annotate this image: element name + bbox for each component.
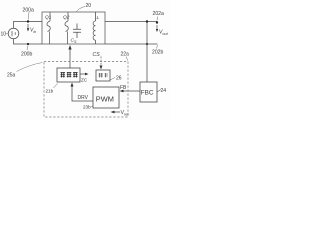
svg-text:Q1: Q1 — [45, 15, 52, 21]
FBC block — [140, 82, 157, 102]
svg-text:21b: 21b — [46, 89, 54, 94]
label 202a leader — [156, 17, 159, 21]
svg-text:23b: 23b — [83, 105, 91, 110]
driver tap arrowhead into rail — [68, 45, 71, 50]
arrowhead DRV into driver — [71, 83, 74, 87]
label 200a leader — [27, 12, 30, 20]
junction dot FBC tap bottom — [146, 43, 148, 45]
block 26 inner glyphs — [99, 73, 109, 78]
label 21b leader — [54, 84, 58, 89]
svg-text:10: 10 — [1, 32, 7, 38]
wire input top — [14, 22, 43, 29]
svg-text:202a: 202a — [153, 11, 164, 17]
capacitor CS plates — [73, 24, 81, 39]
Vin arrow — [27, 24, 29, 30]
wire FBC sense — [146, 22, 148, 83]
svg-text:22a: 22a — [121, 52, 130, 58]
svg-text:FBC: FBC — [141, 90, 154, 97]
CS dashed sense line — [100, 57, 102, 66]
label 24 leader — [157, 90, 161, 93]
junction dot node 200b — [27, 43, 29, 45]
driver block CJK-like glyphs — [61, 73, 78, 78]
svg-text:200b: 200b — [21, 52, 32, 58]
power stage box — [42, 12, 105, 44]
wire DRV from PWM to driver — [72, 85, 93, 101]
terminal dot 202a — [156, 21, 158, 23]
svg-text:24: 24 — [161, 88, 167, 94]
svg-text:CS: CS — [93, 52, 101, 58]
driver block 21b — [57, 68, 80, 82]
svg-text:FB: FB — [120, 85, 127, 91]
Vref arrow — [113, 111, 120, 113]
wire bottom rail — [105, 43, 158, 45]
label 200b leader — [27, 46, 28, 51]
wire input bottom — [14, 39, 43, 44]
dashed controller box 22a — [44, 62, 128, 118]
svg-text:PWM: PWM — [96, 95, 114, 104]
label 20 leader — [77, 7, 86, 12]
arrowhead CS into block 26 — [100, 66, 103, 70]
svg-text:DRV: DRV — [78, 95, 89, 101]
wire output top — [105, 21, 157, 23]
transistor Q2 symbol — [65, 12, 68, 44]
wire FB from FBC to PWM — [122, 90, 141, 92]
Vout arrow — [156, 25, 158, 30]
svg-text:200a: 200a — [23, 8, 34, 14]
svg-text:L: L — [97, 15, 100, 21]
label 26 leader — [110, 78, 115, 81]
svg-text:Q2: Q2 — [63, 15, 70, 21]
svg-text:ZC: ZC — [81, 78, 88, 83]
svg-text:25a: 25a — [7, 73, 16, 79]
sampler block 26 — [96, 70, 110, 81]
label 10 leader — [6, 33, 8, 35]
junction dot node 200a — [27, 20, 29, 22]
driver tap wire to rail — [69, 49, 71, 69]
svg-text:20: 20 — [86, 3, 92, 9]
PWM block — [93, 87, 119, 108]
junction dot FBC tap top — [146, 20, 148, 22]
label 202b leader — [157, 45, 158, 49]
label 25a leader — [17, 63, 43, 72]
arrowhead FB into PWM — [120, 90, 124, 93]
svg-text:202b: 202b — [152, 50, 163, 56]
label 22a leader — [126, 57, 128, 61]
ZC output arrow — [80, 73, 87, 75]
svg-text:26: 26 — [116, 76, 122, 82]
source V1 circle — [8, 28, 19, 39]
battery symbol inside source — [12, 31, 15, 36]
label 23b leader — [91, 105, 93, 108]
inductor L coil — [93, 12, 95, 44]
transistor Q1 symbol — [47, 12, 50, 44]
